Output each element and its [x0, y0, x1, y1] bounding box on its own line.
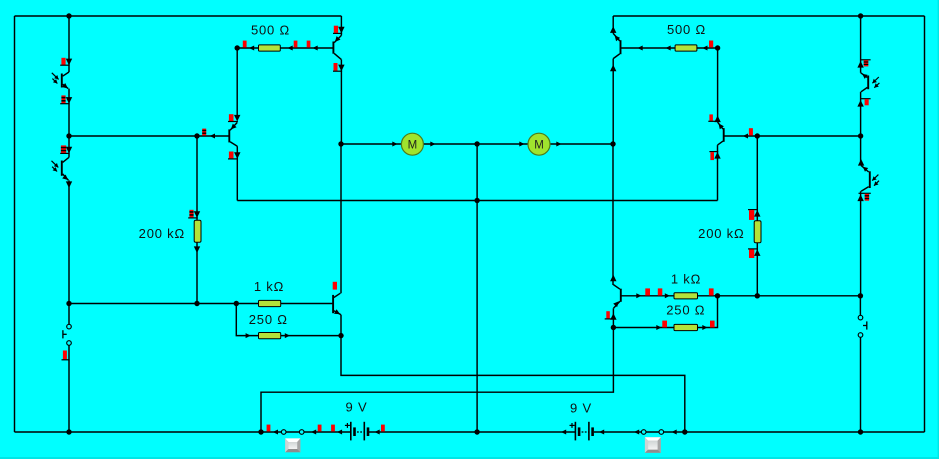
current indicator (striped bar) on Q4 base wire — [202, 129, 206, 136]
svg-text:M: M — [408, 139, 418, 151]
push switch S4 (right, open) — [858, 315, 863, 320]
transistor Q7 (PNP, right driver) — [723, 128, 725, 142]
current arrow on Q7 base wire — [743, 134, 748, 139]
node J24: right 1k row / 250 ohm riser — [715, 293, 720, 298]
current arrow bottom rail 2 — [311, 430, 316, 435]
node J10: Q6 emitter / 250 ohm — [338, 333, 343, 338]
current indicator below Q1 collector — [334, 63, 338, 71]
wire: node J21 to Q10 — [860, 136, 862, 165]
current arrow bottom rail 7 — [634, 430, 639, 435]
current arrow on right 1k row 1 — [636, 293, 641, 298]
current arrow right 250 ohm 1 — [656, 325, 661, 330]
current indicator above Q8 (striped, up) — [860, 59, 870, 61]
transistor Q1 (PNP, left upper) — [332, 42, 334, 54]
current indicator on 500 ohm wire 2 — [294, 41, 298, 48]
wire: 250 ohm branch from node J9 — [236, 304, 341, 336]
svg-text:500 Ω: 500 Ω — [667, 22, 706, 37]
wire: 200k resistor branch from node J5 — [196, 136, 198, 221]
wire: motor rail — [341, 143, 613, 145]
node J23: bottom rail / right branch — [858, 429, 863, 434]
wire: right border (right rail down) — [924, 16, 926, 432]
wire: switch S4 to bottom rail node J23 — [860, 337, 862, 432]
node J1: top rail / left phototransistor branch — [66, 13, 71, 18]
current arrow above Q10 (up) — [858, 159, 864, 166]
transistor Q6 (NPN, left output) — [332, 295, 334, 313]
wire: bottom rail segment (battery B2 to right border) — [594, 431, 925, 433]
resistor R8 250 Ohm (right emitter) — [674, 324, 698, 330]
wire: top-right corner down to Q2 emitter — [612, 16, 614, 33]
node J2: phototransistor chain / base wire of Q4 — [66, 133, 71, 138]
switch S3 (bottom right, closed) — [641, 430, 646, 435]
svg-text:9 V: 9 V — [570, 401, 592, 416]
resistor R2 200 kOhm (left bias) — [194, 220, 201, 242]
current arrow motor rail 3 — [519, 142, 524, 147]
svg-text:500 Ω: 500 Ω — [251, 22, 290, 37]
current indicator above R6 (up) — [748, 209, 758, 211]
node J5: base rail / 200k branch — [194, 133, 199, 138]
current arrow on right 1k row 2 — [665, 293, 670, 298]
svg-text:250 Ω: 250 Ω — [666, 302, 705, 317]
node J22: right chain / 1k row — [858, 293, 863, 298]
current arrow right 500 ohm wire 3 — [702, 46, 707, 51]
svg-text:9 V: 9 V — [346, 400, 368, 415]
node J21: right chain / Q7 base rail — [858, 133, 863, 138]
wire: node J17 down to Q7 emitter — [717, 48, 719, 122]
current arrow right 250 ohm 2 — [702, 325, 707, 330]
node J6: 500 ohm / Q4 emitter branch — [235, 45, 240, 50]
wire: Q1 collector down to motor rail and Q6 collector — [340, 60, 342, 144]
push switch S1 (left, open) — [67, 324, 72, 329]
node J15: centre column / bottom rail — [474, 429, 479, 434]
wire: 500 ohm node J6 down to Q4 emitter — [236, 48, 238, 116]
current arrow right 500 ohm wire 2 — [666, 46, 671, 51]
current arrow on 500 ohm wire 1 — [249, 46, 254, 51]
current indicator right 1k row 1 — [645, 288, 650, 295]
current indicator bottom rail 4 — [381, 425, 385, 432]
svg-text:200 kΩ: 200 kΩ — [139, 226, 185, 241]
wire: right 1k row, Q9 base to node J22 — [621, 295, 861, 297]
resistor R5 500 Ohm (right) — [675, 45, 697, 51]
wire: right phototransistor chain from rail to Q8 — [860, 16, 862, 73]
resistor R7 1 kOhm (right base) — [674, 293, 698, 299]
push button icon for S2 — [285, 438, 300, 452]
phototransistor Q5 (left lower) — [61, 161, 63, 176]
wire: 1k row from node J3 to Q6 base — [69, 303, 333, 305]
node J13: motor rail centre — [474, 141, 479, 146]
node J18: Q7 base rail / 200k right branch — [755, 133, 760, 138]
current indicator above Q4 emitter — [229, 114, 234, 121]
node J9: 1k row / 250 ohm branch — [234, 301, 239, 306]
current indicator right 1k row 2 — [658, 288, 663, 295]
wire: crossover node J16 up and right to Q9 emitter node — [261, 328, 613, 433]
current arrow bottom rail 6 — [599, 430, 604, 435]
current indicator on 500 ohm wire 1 — [243, 41, 247, 48]
current indicator on Q7 base wire — [749, 128, 753, 135]
node J20: top-right rail / right phototransistor branch — [858, 13, 863, 18]
current indicator below Q10 (striped, up) — [859, 192, 871, 194]
wire: R6 down to node J19 — [756, 243, 758, 296]
current arrow bottom rail 1 — [273, 430, 278, 435]
node J16: bottom rail / crossover to Q9 emitter — [258, 429, 263, 434]
current arrow after R4 — [285, 333, 290, 338]
transistor Q4 (PNP, left driver) — [228, 129, 230, 142]
current arrow on 500 ohm wire 2 — [288, 46, 293, 51]
current arrow on 500 ohm wire 3 — [313, 46, 318, 51]
current arrow right 500 ohm wire 1 — [638, 46, 643, 51]
wire: Q3 emitter to node J2 — [68, 89, 70, 136]
resistor R4 250 Ohm (left emitter) — [259, 333, 281, 339]
node J12: motor rail left — [338, 141, 343, 146]
current indicator above Q7 emitter (up) — [709, 114, 713, 121]
current direction arrow below Q5 — [66, 181, 72, 188]
wire: switch S1 to bottom rail node J4 — [68, 345, 70, 432]
node J25: Q9 emitter / right 250 ohm — [611, 325, 616, 330]
svg-text:1 kΩ: 1 kΩ — [671, 271, 701, 286]
current arrow motor rail 2 — [430, 142, 435, 147]
node J8: 1k row / 200k branch — [194, 301, 199, 306]
transistor Q2 (PNP, right upper) — [620, 40, 622, 54]
wire: Q9 emitter to node J25 — [612, 308, 614, 327]
wire: 500 ohm rail, node J6 to Q1 base — [237, 47, 333, 49]
wire: left border (left rail down) — [14, 16, 16, 432]
current indicator below Q7 collector (up) — [709, 151, 718, 153]
phototransistor Q8 (right upper) — [867, 76, 869, 90]
switch S2 (bottom left, closed) — [281, 430, 286, 435]
wire: node J3 to push switch S1 — [68, 304, 70, 325]
current indicator below Q8 (up) — [860, 98, 870, 100]
current arrow above Q9 collector (up) — [610, 275, 616, 282]
current arrow on Q2 collector (up) — [610, 65, 616, 72]
current arrow on 250 ohm wire (left) — [246, 333, 251, 338]
phototransistor Q3 (left upper) — [61, 74, 63, 88]
current arrow motor rail 4 — [556, 142, 561, 147]
current arrow bottom rail 3 — [337, 430, 342, 435]
resistor R3 1 kOhm (left base) — [259, 300, 281, 306]
wire: node J10 down and across to bottom rail node J11 — [341, 336, 685, 432]
current indicator (striped bar + arrow) above Q5 — [61, 145, 66, 153]
current indicator below Q4 collector — [229, 152, 234, 159]
node J7: mid rail / centre column — [474, 198, 479, 203]
wire: R2 to row node J8 — [196, 243, 198, 304]
current indicator below R6 (up) — [748, 248, 758, 250]
current indicator right 500 ohm wire — [709, 41, 713, 48]
wire: top-right supply rail — [613, 15, 924, 17]
node J4: bottom rail / left branch — [66, 429, 71, 434]
wire: Q10 emitter down to node J22 — [860, 191, 862, 296]
wire: 200k right branch from node J18 — [756, 136, 758, 222]
wire: Q7 base to node J18 — [724, 135, 861, 137]
wire: Q2 collector down to motor rail node J14 and Q9 collector — [612, 59, 614, 144]
wire: bottom rail segment (left border to battery B1) — [15, 431, 351, 433]
svg-text:250 Ω: 250 Ω — [249, 312, 288, 327]
wire: Q5 emitter down to node J3 — [68, 180, 70, 303]
svg-text:M: M — [534, 139, 544, 151]
current indicator above Q6 collector — [333, 282, 337, 290]
current arrow bottom rail 8 — [672, 430, 677, 435]
phototransistor Q10 (right lower) — [869, 171, 871, 188]
current indicator right of node J16 — [267, 425, 271, 432]
node J14: motor rail right — [610, 141, 615, 146]
wire: base rail J2 to Q4 base — [69, 135, 229, 137]
wire: Q6 emitter to node J10 — [340, 315, 342, 336]
motor M2 — [528, 133, 550, 155]
current arrow motor rail 1 — [392, 142, 397, 147]
svg-text:1 kΩ: 1 kΩ — [254, 279, 284, 294]
current indicator above Q1 — [334, 26, 338, 33]
svg-text:200 kΩ: 200 kΩ — [698, 226, 744, 241]
wire: top rail corner down to Q1 emitter — [340, 16, 342, 35]
wire: Q7 collector down to mid rail — [717, 145, 719, 200]
current arrow bottom rail 4 — [375, 430, 380, 435]
current indicator (striped bar + arrow) below Q3 — [61, 95, 65, 103]
wire: 500 ohm rail right, Q2 base to node J17 — [621, 47, 718, 49]
current arrow bottom rail 5 — [561, 430, 566, 435]
current indicator right 250 ohm 1 — [662, 321, 667, 328]
current indicator above R2 — [189, 210, 193, 218]
wire: node J22 to push switch S4 — [859, 296, 861, 316]
current indicator on Q9 emitter — [606, 311, 610, 318]
battery B2 9 V (right) — [574, 422, 576, 441]
wire: left phototransistor chain, rail to Q3 collector — [68, 16, 70, 72]
current indicator (red bar + arrow) above Q3 — [61, 58, 65, 65]
current indicator bottom rail 2 — [318, 425, 322, 432]
current indicator bottom rail 3 — [331, 425, 335, 432]
wire: node J2 to Q5 collector — [68, 136, 70, 157]
battery B1 9 V (left) — [350, 422, 352, 441]
current indicator right 1k row 3 — [709, 288, 714, 295]
current indicator below switch S1 — [63, 351, 67, 360]
current direction arrow below R2 — [194, 246, 200, 253]
motor M1 — [401, 133, 423, 155]
wire: mid rail connecting Q4 and Q9 collectors — [237, 200, 717, 202]
current indicator on 500 ohm wire 3 — [307, 41, 311, 48]
node J17: right 500 ohm / Q7 emitter branch — [715, 45, 720, 50]
push button icon for S3 — [645, 437, 661, 453]
current indicator right 250 ohm 2 — [710, 321, 715, 328]
transistor Q9 (NPN, right output) — [620, 289, 622, 302]
resistor R6 200 kOhm (right bias) — [754, 221, 761, 243]
wire: top-left supply rail — [15, 15, 342, 17]
resistor R1 500 Ohm (left) — [259, 45, 281, 51]
wire: centre column, motor rail to bottom rail — [476, 144, 478, 432]
wire: Q4 collector down to mid rail — [236, 146, 238, 200]
node J19: right 1k row / 200k branch — [755, 293, 760, 298]
wire: right 250 ohm row to riser at node J24 — [613, 296, 717, 328]
node J11: bottom rail / Q6 emitter return — [682, 429, 687, 434]
current direction arrow on Q4 base wire — [210, 134, 215, 139]
wire: bottom rail segment (battery B1 to battery B2) — [369, 431, 575, 433]
node J3: left column / 1k row wire — [66, 301, 71, 306]
current arrow above Q2 (up) — [610, 26, 616, 33]
wire: Q8 emitter to node J21 — [860, 92, 862, 136]
